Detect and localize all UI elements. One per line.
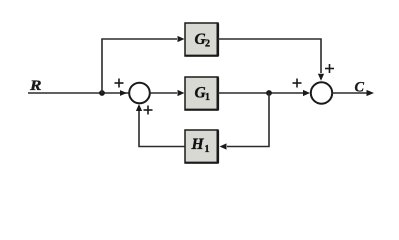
junction node B (266, 90, 272, 96)
svg-text:2: 2 (205, 38, 210, 49)
wire S1 to G1 (150, 92, 178, 94)
plus sign at S2 top input (325, 64, 334, 73)
summing junction S1 (129, 83, 150, 104)
arrow down into S2 top (318, 74, 324, 81)
svg-text:C: C (355, 80, 365, 96)
plus sign at S2 left input (293, 79, 302, 88)
wire H1 output up to S1 bottom (139, 110, 185, 147)
svg-text:1: 1 (205, 92, 210, 103)
arrow at C output (367, 90, 375, 96)
block G1 (185, 77, 218, 110)
summing junction S2 (311, 82, 332, 103)
node R input wire (28, 92, 129, 94)
block G2 (185, 23, 218, 56)
output wire to C (332, 92, 367, 94)
plus sign at S1 bottom input (144, 106, 153, 115)
arrow into H1 right side (220, 143, 227, 149)
wire G2 output to above S2 (218, 39, 321, 73)
wire G1 output to summing junction S2 (218, 92, 303, 94)
arrow up into S1 bottom (136, 104, 142, 111)
junction node A (99, 90, 105, 96)
arrow into G1 (178, 90, 185, 96)
plus sign at S1 left input (115, 79, 124, 88)
block H1 (185, 130, 218, 163)
wire branch up from node A (102, 39, 177, 93)
arrow into summing junction S1 (120, 90, 127, 96)
feedback wire node B down to H1 (227, 93, 269, 147)
svg-text:1: 1 (205, 144, 210, 155)
svg-text:R: R (29, 78, 42, 94)
svg-text:H: H (191, 136, 205, 153)
arrow into S2 (303, 90, 310, 96)
arrow into G2 (178, 36, 185, 42)
